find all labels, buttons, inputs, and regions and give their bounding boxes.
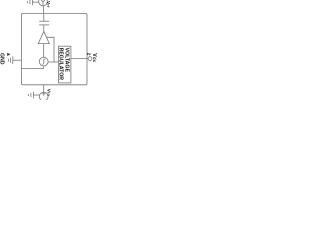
ground (top-left, rotated) — [27, 0, 32, 5]
sine glyph inside G1 — [42, 59, 45, 65]
ground (left, rotated) at GND — [8, 56, 12, 64]
svg-text:GND: GND — [0, 53, 4, 65]
big enclosure rectangle — [21, 13, 87, 84]
wire ground to antenna connector — [32, 1, 38, 3]
wire battery to bottom ground — [33, 94, 39, 96]
svg-text:2: 2 — [87, 53, 92, 56]
GND wire into enclosure — [13, 59, 22, 61]
background — [0, 0, 100, 100]
voltage regulator U1 box — [58, 46, 71, 83]
battery B1 (DC source circle, clipped at bottom) — [39, 92, 48, 101]
antenna connector J1 (circle, clipped at top) — [39, 0, 48, 6]
wire regulator to Vdc terminal — [71, 58, 88, 60]
plus tick inside battery — [42, 92, 46, 95]
wire oscillator to voltage regulator — [48, 61, 58, 63]
wire top edge to capacitor C1 — [43, 13, 45, 21]
antenna glyph inside J1 — [41, 0, 46, 6]
wire capacitor to amplifier — [43, 25, 45, 32]
svg-text:REGULATOR: REGULATOR — [58, 48, 64, 81]
Vdc terminal circle (pin 2) — [88, 57, 92, 61]
GND pointer arrow — [7, 53, 10, 56]
capacitor C1 — [39, 21, 49, 25]
oscillator G1 (AC source circle) — [39, 57, 48, 66]
wire oscillator bottom to ground rail — [43, 66, 45, 69]
wire amplifier to oscillator — [43, 44, 45, 58]
ground (bottom-left, rotated) — [28, 92, 33, 99]
wire amplifier side to supply rail — [47, 37, 55, 62]
wire connector to enclosure top — [42, 6, 44, 13]
ground rail wire to left edge — [21, 68, 43, 70]
amplifier A1 (triangle) — [38, 31, 49, 43]
wire enclosure bottom to battery — [43, 85, 45, 93]
